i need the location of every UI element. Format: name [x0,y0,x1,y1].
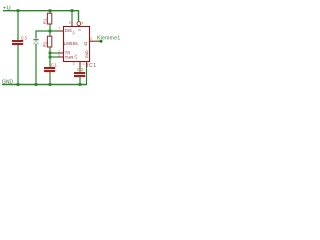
junction +U / C3 [17,9,20,12]
capacitor C1 [44,62,57,72]
diode D1 [33,39,45,47]
wire C1 top [49,57,51,67]
svg-text:6: 6 [58,53,60,57]
pin stub THR pin 6 [59,56,64,58]
wire TR [50,52,59,54]
svg-text:C1: C1 [51,62,58,67]
inversion bubble reset pin 4 [77,22,81,26]
svg-text:8: 8 [69,21,71,25]
junction GND / C1 [49,83,52,86]
svg-text:Q: Q [84,41,88,46]
junction +U / R1 [49,9,52,12]
wire diode to GND rail [35,44,37,84]
svg-text:1: 1 [83,62,85,66]
wire V+ pin 8 [71,11,73,22]
wire THR [50,56,59,58]
capacitor C2 [74,67,85,77]
svg-text:C3: C3 [21,35,28,40]
svg-text:4: 4 [82,21,84,25]
junction TR node [49,52,52,55]
wire C3 bottom [17,45,19,84]
wire C1 bottom [49,72,51,84]
junction +U / V+ pin 8 [71,9,74,12]
junction GND / D1 [35,83,38,86]
wire C3 top [17,11,19,40]
svg-text:DIS: DIS [65,28,72,33]
svg-text:R1: R1 [43,18,48,24]
resistor R1 [43,11,52,31]
capacitor C3 [12,35,27,45]
svg-text:R2: R2 [43,41,48,47]
svg-text:LM555: LM555 [64,41,79,46]
junction GND / C3 [17,83,20,86]
wire GND pin to rail [86,67,88,84]
pin stub Q output wire [89,40,100,42]
svg-text:C2: C2 [77,67,84,72]
pin stub DIS pin 7 [59,30,64,32]
svg-text:GND: GND [85,50,89,58]
junction DIS node [49,30,52,33]
wire +U rail [3,11,79,22]
svg-text:THR: THR [65,55,74,60]
svg-text:7: 7 [59,26,61,30]
IC box IC1 LM555 [64,27,90,62]
svg-text:GND: GND [2,79,14,85]
svg-text:Klemme1: Klemme1 [97,35,120,41]
wire DIS net [36,31,59,39]
wire C2 bottom [79,77,81,84]
wire CV to C2 [79,67,81,72]
svg-text:CV: CV [74,53,78,58]
svg-text:R: R [78,28,82,31]
pin stub GND pin 1 [86,61,88,67]
junction GND / C2 [79,83,82,86]
svg-text:5: 5 [73,62,75,66]
wire GND rail [2,84,87,86]
pin stub CV pin 5 [79,61,81,67]
svg-text:V+: V+ [72,30,76,34]
svg-text:IC1: IC1 [87,63,97,69]
resistor R2 [43,31,52,57]
terminal Klemme1 pad [100,40,103,43]
pin stub V+ [71,22,73,27]
junction THR node [49,56,52,59]
pin stub TR pin 2 [59,52,64,54]
svg-text:3: 3 [90,37,92,41]
